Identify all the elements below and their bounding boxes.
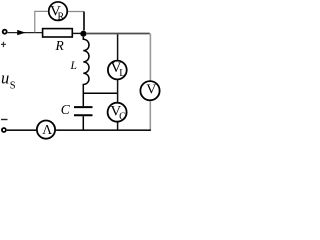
- svg-text:L: L: [70, 60, 77, 72]
- svg-text:C: C: [61, 102, 71, 117]
- svg-text:R: R: [58, 11, 65, 22]
- svg-text:R: R: [55, 38, 65, 53]
- svg-text:L: L: [119, 68, 125, 79]
- svg-text:Λ: Λ: [42, 122, 52, 137]
- svg-text:V: V: [146, 83, 156, 98]
- svg-text:C: C: [119, 112, 126, 123]
- svg-text:u: u: [1, 69, 9, 88]
- svg-text:S: S: [10, 81, 16, 92]
